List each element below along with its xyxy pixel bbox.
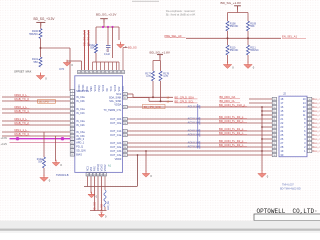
power label BD_SG_+1.8V top (221, 1, 242, 5)
svg-text:OUT_C0b: OUT_C0b (110, 118, 122, 121)
text +0.3V (1, 137, 8, 140)
wire bar drops (228, 13, 249, 22)
svg-text:OUT_C3b: OUT_C3b (110, 150, 122, 153)
wire direct row y155 (128, 154, 273, 156)
svg-text:VCC1: VCC1 (94, 84, 97, 91)
pin boxes top U70 (78, 70, 125, 74)
pin boxes right J2 (307, 97, 311, 152)
op-amp U70 body (75, 76, 123, 173)
wire output row y135 (128, 134, 273, 136)
pin names bottom U70 (87, 164, 108, 171)
svg-text:BD_CON_T: BD_CON_T (314, 127, 320, 129)
wire bus above top pins (93, 61, 120, 63)
wire output row y119 (128, 118, 273, 120)
svg-text:De-emphasis : reserved: De-emphasis : reserved (166, 9, 195, 13)
node rail c (111, 26, 113, 28)
svg-text:VDD0: VDD0 (115, 158, 122, 161)
wire bottom pin3 (94, 176, 96, 210)
net label BD_CPLD_SDA (175, 95, 198, 99)
net label vertical BD_SG_3.3V wire a (83, 30, 87, 70)
svg-text:3: 3 (309, 143, 310, 145)
svg-text:34: 34 (118, 72, 120, 74)
wire R142 down (95, 53, 97, 62)
inductor FB bottom (104, 176, 106, 210)
wire i2c pwr down (159, 55, 161, 61)
ground right of IC (142, 171, 152, 178)
svg-text:43: 43 (82, 72, 84, 74)
net label BD_SG stub (123, 45, 137, 55)
svg-text:AC6 0.1uF: AC6 0.1uF (188, 140, 201, 144)
wire i2c drops (153, 61, 161, 72)
svg-text:BD_UPD: BD_UPD (39, 101, 49, 104)
svg-text:BD_DDC_DA: BD_DDC_DA (220, 95, 236, 99)
svg-text:BD_CON_T: BD_CON_T (314, 107, 320, 109)
svg-text:IN_C0a: IN_C0a (76, 96, 85, 99)
svg-text:3: 3 (72, 97, 73, 99)
svg-text:16: 16 (273, 107, 275, 109)
svg-text:TXD: TXD (110, 86, 113, 91)
svg-text:23: 23 (273, 127, 275, 129)
net label RGB_TX_2 (15, 121, 30, 125)
wire SCL (128, 98, 174, 102)
pin boxes bottom U70 (86, 173, 106, 177)
svg-text:29: 29 (124, 119, 126, 121)
svg-text:19: 19 (86, 174, 88, 176)
label J2 (283, 92, 286, 96)
net label RGB_TX_1 (15, 109, 30, 113)
ground below R101 (36, 73, 47, 81)
wire output row y107 (128, 106, 273, 108)
wire gnd rows to connector (261, 110, 272, 140)
svg-text:PRE_SEL_A0: PRE_SEL_A0 (165, 34, 182, 38)
svg-text:APD_1: APD_1 (76, 142, 85, 145)
wire bottom horiz y210 (90, 210, 107, 212)
svg-text:22: 22 (124, 155, 126, 157)
svg-text:VDD: VDD (122, 86, 125, 91)
wire pwr drop (237, 6, 239, 13)
svg-text:55K: 55K (90, 47, 95, 50)
svg-text:PD_Q: PD_Q (76, 146, 83, 149)
wire input row DIN0_0_L (2, 96, 70, 98)
node gnd bus row151 (261, 150, 263, 152)
svg-text:BD_DDC_CL: BD_DDC_CL (220, 99, 236, 103)
wire top pin drop 6 (112, 62, 114, 70)
label A1 teal (108, 165, 112, 168)
svg-text:26: 26 (273, 139, 275, 141)
svg-text:OUT_C3a: OUT_C3a (110, 154, 122, 157)
ground below R111 (244, 62, 255, 70)
svg-text:BD_SG: BD_SG (100, 204, 104, 213)
wire top pin drop 1 (92, 62, 94, 70)
svg-text:15: 15 (273, 111, 275, 113)
svg-text:28: 28 (124, 123, 126, 125)
resistor R101 (32, 57, 42, 67)
pin names right U70 (104, 93, 122, 161)
svg-text:22: 22 (97, 174, 99, 176)
svg-text:BD_CON_T: BD_CON_T (314, 119, 320, 121)
svg-text:5: 5 (309, 135, 310, 137)
pin numbers left J2 (280, 97, 283, 157)
svg-text:32: 32 (124, 94, 126, 96)
svg-text:55K: 55K (38, 161, 43, 164)
wire R102 to gnd (43, 168, 45, 176)
wire output row y123 (128, 122, 273, 124)
wire R108 down (227, 31, 229, 45)
svg-text:AC4 0.1uF: AC4 0.1uF (188, 128, 201, 132)
wire R110 gnd (227, 55, 229, 63)
wire gnd bus vertical (261, 107, 263, 171)
ground below R102 (40, 175, 51, 183)
net label RGB_TX_3 (15, 132, 30, 136)
svg-text:VMC: VMC (90, 86, 93, 92)
svg-text:4.7K: 4.7K (146, 75, 151, 78)
net label vertical BD_SG_3.3V wire b (87, 30, 91, 70)
svg-text:IN_C1a: IN_C1a (76, 108, 85, 111)
wire top pin drop 4 (104, 62, 106, 70)
net label vertical amb_dia (108, 200, 110, 210)
connector J2 body (279, 96, 307, 157)
pin numbers right J2 (303, 97, 306, 153)
svg-text:BD_CON_T: BD_CON_T (314, 131, 320, 133)
svg-text:BD_SG_+3.3V: BD_SG_+3.3V (34, 17, 56, 21)
wire rail left drop (95, 27, 97, 44)
svg-text:55K/NC: 55K/NC (29, 33, 38, 36)
svg-text:18: 18 (273, 99, 275, 101)
wire output row y147 (128, 146, 273, 148)
svg-text:18: 18 (71, 154, 73, 156)
pin names top U70 (78, 84, 125, 91)
svg-text:IN_C1b: IN_C1b (76, 112, 85, 115)
svg-text:8: 8 (309, 123, 310, 125)
svg-text:OUT_C0a: OUT_C0a (110, 122, 122, 125)
wire input row RGB_TX_1 (2, 112, 70, 114)
wire power to R100 (40, 22, 42, 28)
svg-text:VCC2: VCC2 (102, 84, 105, 91)
wire power mid down (103, 19, 105, 27)
svg-text:39: 39 (98, 72, 100, 74)
svg-text:5: 5 (72, 105, 73, 107)
svg-text:36: 36 (110, 72, 112, 74)
svg-text:BIAS: BIAS (76, 154, 82, 157)
svg-text:38: 38 (102, 72, 104, 74)
svg-text:OFFSET MAX: OFFSET MAX (14, 70, 32, 74)
svg-text:J2: J2 (283, 92, 286, 96)
svg-text:30: 30 (124, 107, 126, 109)
label connector part (280, 184, 301, 191)
wire sel rail (186, 37, 281, 39)
svg-text:23: 23 (100, 174, 102, 176)
power label BD_SG_+3.3V mid (96, 12, 117, 16)
wire DDC CL (249, 102, 272, 104)
svg-text:NC: NC (106, 88, 109, 92)
node junction R100-R101 (40, 47, 42, 49)
wire input row RGB_TX_0 (2, 100, 70, 102)
resistor R100 (29, 29, 42, 39)
wire top right drop (119, 55, 123, 70)
net label EN_SEL_A1 (282, 35, 306, 39)
svg-text:6: 6 (309, 131, 310, 133)
svg-text:16: 16 (71, 146, 73, 148)
svg-text:30: 30 (273, 155, 275, 157)
svg-text:4: 4 (72, 101, 73, 103)
wire rail y27 (96, 26, 119, 28)
pin boxes left J2 (272, 97, 276, 156)
svg-text:12: 12 (71, 132, 73, 134)
svg-text:28: 28 (273, 147, 275, 149)
title block box (254, 214, 320, 221)
svg-text:22: 22 (273, 123, 275, 125)
svg-text:14: 14 (309, 103, 311, 105)
ground below R110 (223, 62, 234, 70)
ground left of IC bottom (52, 160, 62, 167)
svg-text:BD_CON_T: BD_CON_T (314, 103, 320, 105)
svg-text:APD_0: APD_0 (76, 138, 85, 141)
wire down to pin SWAP/POL (69, 48, 72, 91)
wire pin1 to gnd (67, 61, 82, 70)
svg-text:OUT_C1b: OUT_C1b (110, 130, 122, 133)
resistor R102 (37, 157, 46, 168)
wire bottom pin2 gnd (90, 176, 92, 193)
svg-text:VCC3: VCC3 (114, 84, 117, 91)
net label BD_DDC_DA (220, 95, 241, 99)
svg-text:14: 14 (71, 139, 73, 141)
svg-text:40: 40 (94, 72, 96, 74)
svg-text:AC3 0.1uF: AC3 0.1uF (188, 120, 201, 124)
svg-text:17: 17 (273, 103, 275, 105)
wire R178 down (160, 81, 162, 101)
hier label BD_HPD_SINK (143, 104, 166, 108)
svg-text:25: 25 (124, 143, 126, 145)
pin boxes right U70 (123, 92, 127, 156)
svg-text:55K/NC: 55K/NC (230, 49, 239, 52)
svg-text:4: 4 (309, 139, 310, 141)
svg-text:7: 7 (309, 127, 310, 129)
svg-text:BD_CON_T: BD_CON_T (314, 139, 320, 141)
net label PRE_SEL_A0 (165, 34, 186, 38)
svg-text:amb_dia: amb_dia (108, 200, 110, 210)
wire top pin drop 5 (108, 62, 110, 70)
power label BD_SG_+1.8V mid (150, 51, 171, 55)
svg-text:AC2 0.1uF: AC2 0.1uF (188, 116, 201, 120)
svg-text:0.1uF: 0.1uF (104, 53, 111, 56)
wire input row RGB_TX_2 (2, 124, 70, 126)
resistor R111 (247, 45, 259, 55)
wire input row DIN1_1_L (2, 131, 70, 133)
node sel b (247, 37, 249, 39)
svg-text:19: 19 (273, 151, 275, 153)
wire right pin row155 drop (137, 154, 139, 186)
frame tick top (132, 0, 159, 2)
power symbol mid (100, 19, 108, 23)
wire input row DIN1_0_L (2, 120, 70, 122)
wire right pin row151 drop (145, 150, 147, 172)
svg-text:VDDA: VDDA (114, 104, 121, 107)
svg-text:26: 26 (124, 135, 126, 137)
wire bottom pin5 (101, 176, 103, 210)
svg-text:9: 9 (309, 119, 310, 121)
svg-text:7: 7 (72, 113, 73, 115)
svg-text:31: 31 (124, 97, 126, 99)
svg-text:41: 41 (90, 72, 92, 74)
svg-text:8: 8 (72, 117, 73, 119)
wire direct row y151 (128, 150, 273, 152)
svg-text:TMH-L007: TMH-L007 (282, 184, 294, 187)
node SDA pullup (152, 96, 154, 98)
wire SDA (128, 94, 174, 97)
wire i2c bar (153, 60, 161, 62)
wire R111 gnd (247, 55, 249, 63)
svg-text:BD-TMH-4&02-BD: BD-TMH-4&02-BD (280, 188, 301, 191)
svg-text:BD_SG_+3.3V: BD_SG_+3.3V (96, 12, 117, 16)
power symbol left (36, 22, 45, 26)
wire cap drop (108, 27, 113, 58)
node rail b (107, 26, 109, 28)
svg-text:BD_CON_T: BD_CON_T (314, 151, 320, 153)
svg-text:EN_SEL_A1: EN_SEL_A1 (282, 35, 298, 39)
svg-text:U70: U70 (59, 67, 65, 71)
svg-text:OUT_C1a: OUT_C1a (110, 134, 122, 137)
svg-text:27: 27 (124, 131, 126, 133)
ground connector bus (258, 171, 269, 179)
wire R109 down (247, 31, 249, 45)
svg-text:AC7 0.1uF: AC7 0.1uF (188, 144, 201, 148)
tag 10 SDA (167, 96, 170, 99)
node SCL pullup (160, 100, 162, 102)
svg-text:21: 21 (273, 119, 275, 121)
svg-text:BD_CON_T: BD_CON_T (314, 135, 320, 137)
svg-text:25: 25 (273, 135, 275, 137)
label TMC019 (56, 173, 69, 177)
node rail a (102, 26, 104, 28)
svg-text:55K/NC: 55K/NC (230, 25, 239, 28)
net label RGB_TX_0 (15, 97, 30, 101)
wire drop x44 (43, 132, 45, 157)
svg-text:BD_SG: BD_SG (93, 202, 97, 211)
svg-text:BD_SG_+1.8V: BD_SG_+1.8V (221, 1, 242, 5)
svg-text:AC5 0.1uF: AC5 0.1uF (188, 132, 201, 136)
net labels BD_CON_TL rows (219, 103, 247, 147)
pin boxes left U70 (70, 89, 74, 156)
svg-text:10: 10 (309, 99, 311, 101)
resistor R142 (89, 44, 98, 53)
svg-text:24: 24 (124, 147, 126, 149)
node gnd bus row107 (261, 106, 263, 108)
svg-text:20: 20 (90, 174, 92, 176)
wire pwr bar (228, 12, 249, 14)
svg-text:55K: 55K (250, 25, 255, 28)
svg-text:55K: 55K (34, 61, 39, 64)
svg-text:IN_C2a: IN_C2a (76, 120, 85, 123)
wire top pin drop 7 (116, 62, 118, 70)
wire magenta upper (10, 138, 71, 140)
svg-text:17: 17 (71, 150, 73, 152)
svg-text:TX_TERM_CTL: TX_TERM_CTL (104, 109, 122, 112)
wire R177 down (152, 81, 154, 97)
svg-text:24: 24 (104, 174, 106, 176)
text OFFSET MAX (14, 70, 32, 74)
net label vertical bottom b (100, 204, 104, 213)
wire top pin drop 2 (96, 62, 98, 70)
svg-text:BD_HPD_SINK: BD_HPD_SINK (144, 106, 162, 109)
svg-text:BD_CON_T: BD_CON_T (314, 123, 320, 125)
svg-text:BD_CON_T: BD_CON_T (314, 143, 320, 145)
net label DIN0_0_L (15, 93, 30, 97)
svg-text:IN_C0b: IN_C0b (76, 100, 85, 103)
svg-text:OUT_C2a: OUT_C2a (110, 146, 122, 149)
wire bottom pin4 (97, 176, 99, 210)
svg-text:24: 24 (273, 131, 275, 133)
pin names left U70 (76, 90, 90, 157)
svg-text:1: 1 (309, 151, 310, 153)
svg-text:BD_CPLD_SCL: BD_CPLD_SCL (175, 99, 195, 103)
svg-text:12: 12 (309, 111, 311, 113)
svg-text:OUT_C2b: OUT_C2b (110, 142, 122, 145)
wire input row DIN0_1_L (2, 108, 70, 110)
svg-text:BD_CON_T: BD_CON_T (314, 115, 320, 117)
net label BD_DDC_CL (220, 99, 241, 103)
svg-text:27: 27 (273, 143, 275, 145)
svg-text:Bj : fixed at (6dB a) mVA: Bj : fixed at (6dB a) mVA (166, 13, 195, 17)
wire bottom horiz y186 (84, 186, 138, 188)
svg-text:BD_SG: BD_SG (128, 45, 137, 49)
node sel a (227, 37, 229, 39)
svg-text:11: 11 (309, 115, 311, 117)
resistor R108 (226, 21, 238, 31)
resistor R110 (226, 45, 238, 55)
svg-text:6: 6 (72, 109, 73, 111)
power symbol top-right (234, 6, 241, 10)
text +0.2V (1, 143, 8, 146)
wire junction right (41, 47, 71, 49)
svg-text:BD_CON_T: BD_CON_T (314, 99, 320, 101)
ground U70 top-left (63, 60, 73, 67)
net label BD_CPLD_SCL (175, 99, 198, 103)
svg-text:21: 21 (93, 174, 95, 176)
wire bottom pin1 down (87, 176, 89, 186)
wires and net labels right J2 (312, 99, 320, 153)
power label BD_SG_+3.3V left (34, 17, 56, 21)
resistor R177 (145, 71, 154, 81)
svg-text:37: 37 (106, 72, 108, 74)
ground bottom pin2 (88, 192, 98, 199)
svg-text:15: 15 (71, 142, 73, 144)
wire input row RGB_TX_3 (2, 135, 70, 137)
svg-text:BD_SG_+1.8V: BD_SG_+1.8V (150, 51, 171, 55)
svg-text:IN_C3a: IN_C3a (76, 131, 85, 134)
resistor R109 (247, 21, 257, 31)
svg-text:42: 42 (86, 72, 88, 74)
svg-text:+0.3V: +0.3V (1, 137, 8, 140)
svg-text:BD_CPLD_SDA: BD_CPLD_SDA (175, 95, 195, 99)
node magenta a (16, 137, 19, 140)
svg-text:VDD2: VDD2 (104, 164, 107, 171)
wire output row y131 (128, 130, 273, 132)
svg-text:BD_CON_T: BD_CON_T (314, 147, 320, 149)
wire rail right drop (118, 27, 120, 40)
svg-text:SD_QIN: SD_QIN (76, 150, 86, 153)
svg-text:BD_CON_T: BD_CON_T (314, 111, 320, 113)
note de-emphasis (166, 9, 195, 16)
wire R100 to junction (40, 39, 42, 58)
ground decoupling (117, 42, 127, 49)
svg-text:55K/NC: 55K/NC (250, 49, 259, 52)
svg-text:IN_C2b: IN_C2b (76, 124, 85, 127)
label U70 (59, 67, 65, 71)
svg-text:BD_SG_3V3: BD_SG_3V3 (87, 30, 91, 46)
net label DIN1_0_L (15, 117, 30, 121)
title block text OPTOWELL (257, 208, 318, 215)
svg-text:INSQ: INSQ (98, 85, 101, 91)
